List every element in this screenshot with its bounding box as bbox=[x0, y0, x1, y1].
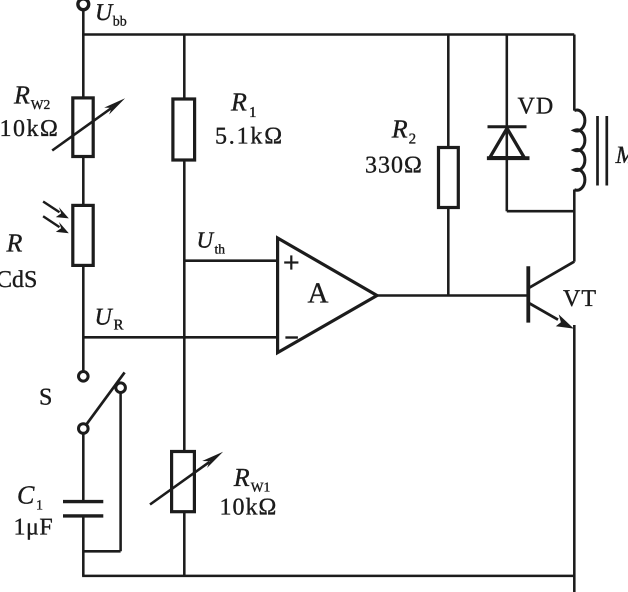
wire: left vertical x=83.3 upper (terminal to switch top contact) bbox=[82, 10, 85, 372]
svg-text:C: C bbox=[17, 481, 35, 510]
svg-text:U: U bbox=[95, 0, 114, 26]
wire: VD branch vertical x=506.8 bbox=[506, 35, 509, 212]
transistor VT collector lead bbox=[530, 262, 575, 288]
relay core line 1 bbox=[596, 116, 599, 186]
potentiometer RW1 body bbox=[172, 452, 195, 512]
terminal Ubb bbox=[78, 0, 89, 10]
svg-text:U: U bbox=[197, 227, 215, 252]
svg-text:W2: W2 bbox=[31, 97, 51, 112]
svg-text:R: R bbox=[230, 88, 247, 117]
svg-text:5.1kΩ: 5.1kΩ bbox=[215, 124, 284, 150]
switch S blade bbox=[86, 372, 124, 424]
svg-text:bb: bb bbox=[113, 15, 127, 30]
svg-text:R: R bbox=[233, 463, 250, 492]
op-amp A triangle bbox=[278, 238, 377, 353]
wire: top rail y=34.5 from left line to right branch bbox=[82, 33, 574, 36]
resistor RW2 body bbox=[73, 98, 93, 157]
svg-text:2: 2 bbox=[409, 131, 417, 147]
svg-text:1μF: 1μF bbox=[14, 515, 54, 541]
diode VD cathode bar bbox=[488, 125, 527, 128]
transistor VT emitter lead bbox=[530, 303, 574, 328]
svg-text:S: S bbox=[39, 385, 52, 411]
photoresistor light arrow 1 bbox=[43, 202, 69, 219]
svg-text:1: 1 bbox=[249, 105, 257, 121]
resistor R2 body bbox=[439, 148, 459, 208]
svg-text:R: R bbox=[13, 81, 30, 110]
svg-text:1: 1 bbox=[36, 499, 43, 514]
switch S side contact bbox=[116, 383, 126, 393]
wire: R2 branch vertical x=448.3 bbox=[447, 35, 450, 296]
svg-text:M: M bbox=[615, 142, 628, 169]
svg-text:R: R bbox=[6, 228, 23, 257]
svg-text:R: R bbox=[391, 114, 408, 143]
resistor R1 body bbox=[173, 99, 195, 160]
photoresistor light arrow 2 bbox=[43, 216, 69, 233]
svg-text:CdS: CdS bbox=[0, 267, 37, 293]
wire: relay bottom horizontal bbox=[507, 210, 575, 213]
wire: right vertical above coil bbox=[573, 35, 576, 111]
wire: bottom rail y=575.9 bbox=[82, 575, 574, 578]
switch S top contact bbox=[79, 372, 89, 382]
wire: second vertical x=184.3 full height bbox=[183, 35, 186, 576]
svg-text:th: th bbox=[215, 242, 226, 257]
svg-text:VT: VT bbox=[563, 286, 597, 312]
svg-text:10kΩ: 10kΩ bbox=[220, 494, 278, 520]
wire: op-amp output to transistor base bbox=[377, 294, 527, 297]
wire: left vertical from switch bottom contact to capacitor top plate bbox=[82, 433, 85, 501]
wire: emitter vertical down to bottom edge bbox=[573, 325, 576, 592]
wire: UR horizontal to op-amp - input bbox=[83, 336, 277, 339]
svg-text:330Ω: 330Ω bbox=[365, 153, 423, 179]
op-amp + input sign bbox=[284, 255, 298, 269]
wire: Uth horizontal to op-amp + input bbox=[184, 259, 277, 262]
op-amp - input sign bbox=[285, 336, 298, 338]
diode VD anode base bar bbox=[487, 156, 530, 160]
svg-text:VD: VD bbox=[518, 93, 555, 119]
svg-text:W1: W1 bbox=[251, 479, 270, 494]
wire: capacitor bottom link horizontal bbox=[83, 550, 120, 553]
capacitor C1 top plate bbox=[63, 500, 103, 503]
wire: left vertical from capacitor bottom plate to bottom rail bbox=[82, 517, 85, 576]
svg-text:R: R bbox=[114, 318, 124, 334]
resistor RW2 wiper arrow bbox=[52, 98, 125, 150]
switch S bottom contact bbox=[79, 424, 89, 434]
relay core line 2 bbox=[605, 116, 608, 186]
wire: switch second branch vertical x=120.6 bbox=[119, 392, 122, 551]
photoresistor R body bbox=[73, 205, 93, 265]
capacitor C1 bottom plate bbox=[63, 514, 103, 517]
relay coil bbox=[574, 110, 585, 190]
svg-text:U: U bbox=[95, 304, 114, 330]
svg-text:10kΩ: 10kΩ bbox=[0, 116, 59, 142]
potentiometer RW1 wiper arrow bbox=[150, 452, 223, 505]
transistor VT base bar bbox=[526, 266, 530, 322]
svg-text:A: A bbox=[308, 278, 329, 310]
wire: right vertical from coil bottom to collector elbow bbox=[573, 190, 576, 262]
diode VD triangle bbox=[490, 128, 525, 157]
